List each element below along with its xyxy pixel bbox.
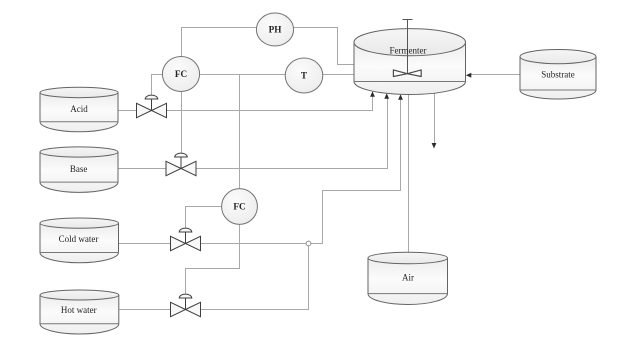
svg-text:Hot water: Hot water [61, 305, 97, 315]
svg-text:FC: FC [175, 69, 187, 79]
svg-text:Substrate: Substrate [541, 69, 575, 79]
svg-text:PH: PH [269, 25, 282, 35]
svg-text:FC: FC [233, 202, 245, 212]
svg-text:Fermenter: Fermenter [390, 46, 427, 56]
svg-text:Air: Air [402, 273, 414, 283]
svg-text:Acid: Acid [70, 104, 88, 114]
svg-text:Base: Base [70, 164, 88, 174]
svg-text:T: T [301, 71, 307, 81]
svg-text:Cold water: Cold water [59, 234, 99, 244]
